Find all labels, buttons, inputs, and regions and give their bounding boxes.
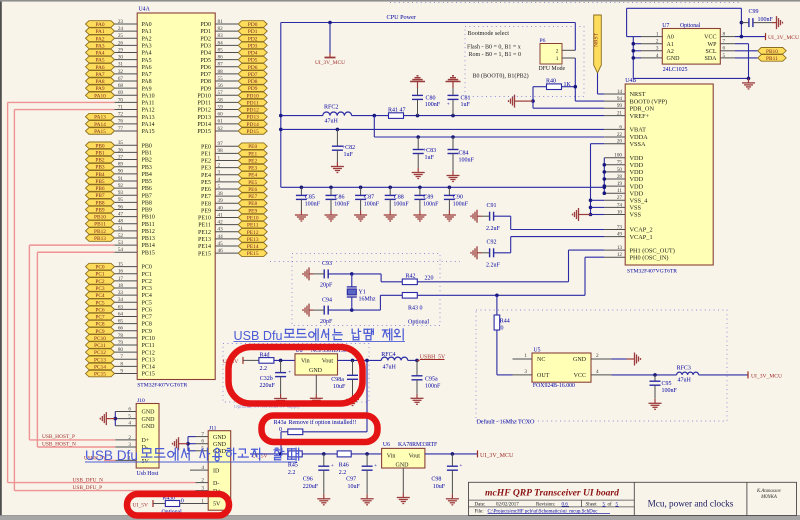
svg-text:35: 35 — [118, 140, 124, 146]
svg-text:48: 48 — [118, 219, 124, 225]
svg-text:PA3: PA3 — [95, 43, 104, 49]
svg-text:File:: File: — [475, 509, 484, 514]
capacitor C86 100nF — [326, 186, 351, 211]
pin J11 ID stub — [190, 469, 196, 471]
resistor R40 1K — [533, 78, 577, 101]
svg-text:2: 2 — [596, 353, 599, 359]
svg-text:1: 1 — [218, 155, 221, 161]
ground at R40 — [509, 95, 535, 108]
svg-text:10uF: 10uF — [333, 384, 346, 390]
svg-text:RFC3: RFC3 — [677, 366, 691, 372]
svg-text:+: + — [459, 463, 462, 469]
svg-text:PA6: PA6 — [95, 65, 104, 71]
svg-text:1: 1 — [656, 32, 659, 38]
pin PC11 (79) — [86, 340, 155, 349]
svg-text:1: 1 — [556, 56, 559, 62]
svg-text:PB4: PB4 — [142, 172, 152, 178]
svg-text:83: 83 — [218, 33, 224, 39]
svg-text:16: 16 — [118, 269, 124, 275]
svg-text:VDD: VDD — [630, 183, 644, 190]
svg-text:PC9: PC9 — [142, 329, 152, 335]
svg-text:54: 54 — [118, 247, 124, 253]
svg-text:PE6: PE6 — [201, 187, 211, 193]
capacitor C84 100nF — [448, 135, 475, 171]
pin PD9 (56) — [200, 83, 267, 92]
pin PE12 (43) — [198, 227, 267, 236]
svg-text:PC8: PC8 — [142, 322, 152, 328]
svg-text:PE0: PE0 — [248, 144, 257, 150]
svg-text:7: 7 — [201, 432, 204, 438]
svg-text:0: 0 — [279, 427, 282, 433]
svg-text:100: 100 — [614, 153, 622, 159]
svg-text:Optional: Optional — [680, 23, 701, 29]
svg-text:OUT: OUT — [537, 373, 550, 379]
pin J11 (7) — [196, 432, 209, 438]
svg-text:PE2: PE2 — [201, 159, 211, 165]
wire J11 gnd tie — [183, 437, 196, 451]
pin PE10 (41) — [198, 212, 267, 221]
svg-text:PB1: PB1 — [142, 151, 152, 157]
svg-text:PB10: PB10 — [766, 49, 778, 55]
svg-text:PA9: PA9 — [95, 86, 104, 92]
svg-text:WP: WP — [708, 42, 718, 48]
svg-text:+: + — [447, 102, 450, 108]
svg-text:U6: U6 — [383, 442, 390, 448]
svg-text:4: 4 — [128, 421, 131, 427]
svg-text:PB15: PB15 — [142, 250, 155, 256]
svg-text:PD10: PD10 — [247, 93, 260, 99]
svg-text:SCL: SCL — [705, 49, 716, 55]
svg-text:220uF: 220uF — [260, 383, 276, 389]
svg-text:4: 4 — [218, 177, 221, 183]
ground below U8 — [310, 394, 323, 405]
svg-text:PE7: PE7 — [201, 194, 211, 200]
dotted region TCXO — [476, 310, 727, 421]
wire PDR_ON (pin99) to ground — [533, 101, 604, 108]
svg-text:PE5: PE5 — [201, 180, 211, 186]
wire VSS pins — [589, 199, 605, 217]
pin U5 GND (2) — [591, 353, 627, 359]
dotted region CPU power top — [390, 2, 742, 4]
net flag NRST (vertical) — [594, 15, 602, 73]
svg-text:SDA: SDA — [704, 56, 717, 62]
svg-text:+C82: +C82 — [342, 145, 355, 151]
svg-text:GND: GND — [142, 417, 156, 423]
svg-text:GND: GND — [309, 368, 323, 374]
svg-text:PB5: PB5 — [142, 179, 152, 185]
pin PE15 (46) — [198, 248, 267, 257]
svg-text:100nF: 100nF — [423, 202, 439, 208]
svg-text:NC: NC — [537, 357, 545, 363]
pin PE5 (4) — [201, 177, 267, 186]
svg-text:STM32F407VGT6TR: STM32F407VGT6TR — [137, 383, 187, 389]
node VDDA split junction — [373, 114, 377, 137]
pin PD12 (59) — [197, 104, 267, 113]
svg-text:PE1: PE1 — [248, 151, 257, 157]
pin PD6 (87) — [200, 62, 267, 71]
svg-text:56: 56 — [218, 83, 224, 89]
svg-text:PA4: PA4 — [95, 51, 104, 57]
svg-text:PC10: PC10 — [142, 336, 155, 342]
ground below C32b — [274, 394, 287, 405]
ground left of J11 — [173, 437, 184, 450]
svg-text:16Mhz: 16Mhz — [359, 297, 376, 303]
svg-text:24: 24 — [118, 26, 124, 32]
ground left of C92 — [471, 246, 482, 259]
svg-text:VDD: VDD — [630, 155, 644, 162]
svg-text:FOX924B-16.000: FOX924B-16.000 — [533, 383, 575, 389]
svg-text:97: 97 — [218, 141, 224, 147]
svg-text:220: 220 — [425, 276, 434, 282]
svg-text:PC0: PC0 — [142, 265, 152, 271]
svg-text:PD5: PD5 — [200, 58, 211, 64]
svg-text:C91: C91 — [487, 203, 497, 209]
svg-text:PD1: PD1 — [200, 29, 211, 35]
svg-text:0: 0 — [501, 326, 504, 332]
svg-text:3: 3 — [656, 46, 659, 52]
svg-text:PD8: PD8 — [200, 79, 211, 85]
svg-text:PC12: PC12 — [94, 350, 106, 356]
ground left of C94 — [303, 304, 314, 317]
pin J10 (3) — [115, 442, 136, 448]
svg-text:PD9: PD9 — [248, 86, 258, 92]
svg-text:DFU Mode: DFU Mode — [539, 66, 566, 72]
pin PB9 (96) — [86, 204, 152, 213]
svg-text:PC7: PC7 — [142, 315, 152, 321]
highlight ring around R43a — [262, 416, 378, 443]
capacitor C90 100nF — [444, 186, 469, 211]
svg-text:77: 77 — [118, 126, 124, 132]
title block — [469, 482, 797, 515]
inductor RFC3 47uH — [677, 366, 748, 384]
svg-text:87: 87 — [218, 62, 224, 68]
svg-text:VDD: VDD — [630, 169, 644, 176]
svg-text:PA10: PA10 — [142, 93, 155, 99]
window bottom strip — [0, 516, 800, 520]
note Bootmode select — [467, 30, 529, 80]
svg-text:USB_HOST_P: USB_HOST_P — [42, 434, 75, 440]
svg-text:49: 49 — [617, 232, 623, 238]
svg-text:PC4: PC4 — [95, 293, 105, 299]
ground below C97 — [361, 494, 374, 505]
svg-text:PA0: PA0 — [142, 22, 152, 28]
svg-text:R44: R44 — [500, 319, 510, 325]
svg-text:PB13: PB13 — [142, 236, 155, 242]
svg-text:R43a: R43a — [274, 420, 287, 426]
svg-text:100nF: 100nF — [459, 158, 475, 164]
ground below U6 — [397, 493, 410, 504]
svg-text:13: 13 — [617, 245, 623, 251]
svg-text:100nF: 100nF — [305, 202, 321, 208]
svg-text:72: 72 — [118, 112, 124, 118]
svg-text:PC5: PC5 — [142, 300, 152, 306]
svg-text:KA78RM33RTF: KA78RM33RTF — [398, 442, 438, 448]
pin PE13 (44) — [198, 234, 267, 243]
svg-text:PD1: PD1 — [248, 29, 258, 35]
svg-text:PD13: PD13 — [247, 115, 260, 121]
svg-text:Date:: Date: — [475, 502, 486, 507]
svg-text:PC12: PC12 — [142, 350, 155, 356]
pin PA4 (29) — [86, 47, 152, 56]
svg-text:C95: C95 — [662, 381, 672, 387]
wire 3V rail top — [281, 23, 576, 188]
svg-text:PB0: PB0 — [142, 143, 152, 149]
svg-text:2.2: 2.2 — [339, 470, 347, 476]
svg-text:PH1 (OSC_OUT): PH1 (OSC_OUT) — [630, 247, 675, 254]
pin PB0 (35) — [86, 140, 152, 149]
svg-text:+: + — [374, 463, 377, 469]
pin U5 OUT (3) — [497, 369, 532, 375]
svg-text:NRST: NRST — [630, 91, 646, 98]
wire PH0 to OSC_IN — [585, 257, 604, 295]
svg-text:2.2: 2.2 — [260, 366, 268, 372]
resistor R44 0 (vertical) — [494, 294, 510, 375]
ground below C85 — [295, 211, 308, 222]
pin J11 (5) — [196, 446, 209, 452]
pin PA1 (24) — [86, 26, 152, 35]
svg-text:PB10: PB10 — [94, 215, 106, 221]
pin PE3 (2) — [201, 162, 267, 171]
pin U7 SCL (6) — [720, 46, 757, 52]
svg-text:PE13: PE13 — [247, 237, 259, 243]
svg-text:PE7: PE7 — [248, 194, 257, 200]
pin U4B VDD (28) — [604, 174, 643, 183]
pin U5 VCC (4) — [591, 369, 677, 375]
svg-text:27: 27 — [617, 195, 623, 201]
pin J10 (1) — [115, 455, 136, 461]
pin PE6 (5) — [201, 184, 267, 193]
svg-text:U4A: U4A — [139, 7, 151, 13]
ground right of U5 GND — [627, 353, 641, 366]
svg-text:+: + — [331, 463, 334, 469]
pin U4B VCAP_2 (73) — [604, 224, 652, 233]
pin PC0 (15) — [86, 262, 152, 271]
svg-text:34: 34 — [118, 297, 124, 303]
capacitor C99 100nF — [740, 9, 774, 27]
svg-text:5: 5 — [128, 414, 131, 420]
svg-text:20pF: 20pF — [320, 319, 333, 325]
svg-text:02/02/2017: 02/02/2017 — [496, 502, 519, 507]
capacitor C82 1uF — [332, 128, 355, 162]
pin U7 A2 (3) — [633, 46, 662, 52]
svg-text:Default - 16Mhz TCXO: Default - 16Mhz TCXO — [477, 418, 535, 425]
resistor R46 2.2 — [337, 451, 381, 476]
pin U4B VSS (10) — [604, 209, 641, 218]
pin U4B VDD (19) — [604, 181, 643, 190]
svg-text:2: 2 — [218, 162, 221, 168]
svg-text:C89: C89 — [423, 195, 433, 201]
svg-text:94: 94 — [617, 96, 623, 102]
svg-text:53: 53 — [118, 240, 124, 246]
svg-text:PD0: PD0 — [200, 22, 211, 28]
svg-text:PD14: PD14 — [197, 122, 211, 128]
pin PD5 (86) — [200, 55, 267, 64]
pin PC7 (64) — [86, 311, 152, 320]
svg-text:PE2: PE2 — [248, 158, 257, 164]
svg-text:PC6: PC6 — [95, 307, 105, 313]
svg-text:PA10: PA10 — [94, 93, 106, 99]
svg-text:R46: R46 — [339, 462, 349, 468]
capacitor C32b 220uF — [260, 360, 292, 394]
svg-text:PB6: PB6 — [95, 186, 105, 192]
capacitor C95 100nF — [650, 373, 678, 399]
svg-text:PD12: PD12 — [247, 108, 260, 114]
svg-text:UI_3V_MCU: UI_3V_MCU — [768, 35, 799, 41]
svg-text:6: 6 — [619, 124, 622, 130]
svg-text:39: 39 — [218, 198, 224, 204]
svg-text:A2: A2 — [667, 49, 674, 55]
svg-text:PA5: PA5 — [95, 58, 104, 64]
svg-text:Vin: Vin — [387, 453, 396, 459]
power flag UI_3V_MCU (top) — [315, 21, 345, 66]
svg-text:47uH: 47uH — [678, 378, 692, 384]
wire P6 pin1 to R40/BOOT0 — [562, 58, 575, 101]
svg-text:PDR_ON: PDR_ON — [630, 105, 655, 112]
capacitor C96 220uF — [303, 454, 334, 494]
svg-text:C97: C97 — [346, 477, 356, 483]
pin J10 (6) — [115, 406, 136, 412]
port flag PB11 — [758, 55, 787, 62]
svg-text:U7: U7 — [662, 23, 669, 29]
svg-text:PA7: PA7 — [95, 72, 104, 78]
pin U7 WP (7) — [720, 39, 748, 79]
svg-text:3: 3 — [218, 170, 221, 176]
power flag UI_5V (at R43b) — [133, 500, 154, 509]
pin PD1 (82) — [200, 26, 267, 35]
svg-text:30: 30 — [118, 55, 124, 61]
pin U5 NC (1) — [513, 353, 533, 359]
svg-text:63: 63 — [118, 304, 124, 310]
svg-text:7: 7 — [723, 39, 726, 45]
svg-text:UI_5V: UI_5V — [133, 503, 149, 509]
svg-text:K.Atanassov: K.Atanassov — [756, 489, 782, 494]
capacitor C95a 100nF — [412, 360, 442, 393]
svg-text:PB11: PB11 — [142, 222, 155, 228]
svg-text:6: 6 — [201, 439, 204, 445]
svg-text:36: 36 — [118, 147, 124, 153]
pin PA15 (77) — [86, 126, 155, 135]
svg-text:44: 44 — [218, 234, 224, 240]
svg-text:PD15: PD15 — [247, 129, 260, 135]
svg-text:C88: C88 — [394, 195, 404, 201]
pin PA13 (72) — [86, 112, 155, 121]
svg-text:PD0: PD0 — [248, 22, 258, 28]
svg-text:47: 47 — [118, 212, 124, 218]
svg-text:PE1: PE1 — [201, 151, 211, 157]
svg-text:GND: GND — [213, 442, 227, 448]
wire USB_DFU_P (PA12 to J11 D+) — [14, 110, 195, 491]
svg-text:1: 1 — [201, 498, 204, 504]
svg-text:85: 85 — [218, 47, 224, 53]
svg-text:90: 90 — [118, 169, 124, 175]
svg-text:PB12: PB12 — [94, 229, 106, 235]
svg-text:PD4: PD4 — [200, 51, 211, 57]
pin PD3 (84) — [200, 40, 267, 49]
svg-text:PA7: PA7 — [142, 72, 152, 78]
svg-text:PA13: PA13 — [94, 115, 106, 121]
svg-text:84: 84 — [218, 40, 224, 46]
eeprom U7 24LC1025 Optional — [662, 23, 720, 73]
resistor R43b 0 Optional — [153, 495, 196, 515]
svg-text:PC15: PC15 — [94, 372, 106, 378]
wire VSSA to VSS chain — [591, 144, 605, 215]
pin PB10 (47) — [86, 212, 155, 221]
svg-text:PE0: PE0 — [201, 144, 211, 150]
pin PC9 (66) — [86, 326, 152, 335]
svg-text:23: 23 — [118, 19, 124, 25]
pin PC3 (18) — [86, 283, 152, 292]
tcxo U5 FOX924B-16.000 — [532, 348, 591, 390]
mcu U4B STM32F407VGT6TR (power pins) — [625, 78, 713, 275]
svg-text:PH0 (OSC_IN): PH0 (OSC_IN) — [630, 254, 669, 261]
svg-text:PB7: PB7 — [142, 193, 152, 199]
svg-text:PA0: PA0 — [95, 22, 104, 28]
svg-text:PC3: PC3 — [142, 286, 152, 292]
connector P6 DFU Mode — [539, 38, 566, 72]
pin U4B PDR_ON (99) — [604, 103, 654, 112]
svg-text:19: 19 — [617, 181, 623, 187]
connector J11 Usb Dfu — [208, 426, 231, 520]
svg-text:PE9: PE9 — [201, 208, 211, 214]
pin J11 (2) — [196, 478, 209, 484]
svg-text:PB10: PB10 — [142, 215, 155, 221]
svg-text:PE3: PE3 — [248, 166, 257, 172]
svg-text:PD11: PD11 — [198, 101, 211, 107]
ground below C83 — [412, 168, 425, 179]
power flag UI_5V (at R4d) — [223, 357, 243, 365]
ground below C88 — [384, 211, 397, 222]
inductor RFC4 47uH — [381, 352, 417, 370]
pin PE0 (97) — [201, 141, 267, 150]
pin J11 (3) — [196, 486, 209, 492]
svg-text:PE12: PE12 — [247, 230, 259, 236]
pin J10 (4) — [115, 421, 136, 427]
pin PB8 (95) — [86, 197, 152, 206]
svg-text:2.2uF: 2.2uF — [486, 262, 501, 268]
svg-text:C96: C96 — [303, 477, 313, 483]
svg-text:PD5: PD5 — [248, 58, 258, 64]
svg-text:22: 22 — [617, 132, 623, 138]
svg-text:PD10: PD10 — [197, 93, 211, 99]
svg-text:C94: C94 — [322, 298, 332, 304]
svg-text:PD2: PD2 — [200, 36, 211, 42]
power flag UI_3V_MCU (at U6) — [478, 450, 515, 459]
svg-text:1uF: 1uF — [461, 102, 471, 108]
svg-text:VSS: VSS — [630, 205, 642, 212]
svg-text:PD9: PD9 — [200, 86, 211, 92]
svg-text:C99: C99 — [749, 9, 759, 15]
svg-text:86: 86 — [218, 55, 224, 61]
svg-text:C32b: C32b — [260, 376, 273, 382]
svg-text:PC10: PC10 — [94, 336, 106, 342]
svg-text:VSSA: VSSA — [630, 141, 647, 148]
resistor R45 2.2 — [288, 451, 337, 476]
svg-text:95: 95 — [118, 197, 124, 203]
svg-text:B0 (BOOT0), B1(PB2): B0 (BOOT0), B1(PB2) — [473, 73, 529, 80]
capacitor C93 20pF — [314, 261, 352, 289]
svg-text:PB8: PB8 — [142, 200, 152, 206]
svg-text:12: 12 — [617, 252, 623, 258]
pin PB11 (48) — [86, 219, 155, 228]
svg-text:USB Dfu: USB Dfu — [234, 329, 283, 343]
svg-text:2: 2 — [201, 478, 204, 484]
svg-text:PD2: PD2 — [248, 36, 258, 42]
pin PB7 (93) — [86, 190, 152, 199]
svg-text:66: 66 — [118, 326, 124, 332]
svg-text:7: 7 — [120, 354, 123, 360]
svg-text:75: 75 — [617, 160, 623, 166]
dotted region U8 option — [223, 344, 369, 411]
